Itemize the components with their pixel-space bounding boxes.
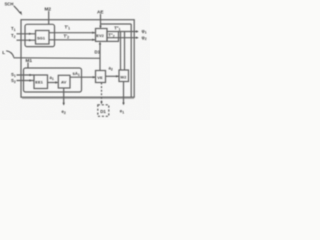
wire output 1 to phi1 [119,30,139,32]
inner module box M2 (top-left rounded) [25,24,55,46]
block SG1 [36,31,50,45]
wire right inner vertical [130,24,132,97]
label e1 [120,109,124,115]
block VE [96,71,106,83]
wire AV to VE with arrow [70,76,96,78]
label T1 [11,26,16,32]
svg-text:M1: M1 [26,58,33,63]
svg-text:SG1: SG1 [37,36,46,41]
inner module box M1 (bottom rounded) [24,68,82,92]
svg-text:EE1: EE1 [35,80,43,85]
svg-text:AE: AE [97,10,104,15]
label e2 [62,109,66,115]
svg-text:T′′1: T′′1 [114,26,120,32]
leader arrow from SCH to outer box [14,6,22,15]
block D1 dashed [98,105,109,117]
wire T1 into SG1 with arrow [17,33,36,35]
wire M2 down [48,11,50,24]
outer box bottom shadow line [22,97,134,99]
wire T'1 from SG1 to EV2 with arrow [49,32,96,34]
wire VE to EV2 vertical with up arrow [99,42,101,71]
wire output 2 to phi2 [107,37,139,39]
label T'1 [65,25,71,31]
label phi1 [142,29,147,35]
wire AE branch right [101,23,132,25]
wire S1 into EE1 with arrow [17,74,35,76]
label phi2 [142,35,147,41]
svg-text:VE: VE [97,75,103,80]
wire EE1 to AV with arrow [48,81,59,83]
label M2 [45,7,52,12]
wire M1 down [27,63,29,69]
block EE1 [34,75,48,89]
svg-text:SCH: SCH [5,2,14,7]
wire S2 into EE1 with arrow [17,79,35,81]
label M1 [26,58,33,63]
block EV2 [96,29,108,42]
svg-text:AV: AV [61,80,67,85]
block W2 [119,70,129,82]
svg-text:a1: a1 [50,75,54,81]
svg-text:a2: a2 [109,66,113,72]
label T''1 [114,26,120,32]
label D1 (signal) [95,50,101,55]
svg-text:T′2: T′2 [64,34,70,40]
svg-text:T1: T1 [11,26,16,32]
svg-text:T′1: T′1 [65,25,71,31]
wire L horizontal [14,57,100,60]
svg-text:e1: e1 [120,109,124,115]
wire T2 into SG1 with arrow [17,39,36,41]
label T2 [11,33,16,39]
wire tap T''1 down to W2 [120,32,122,71]
svg-text:D1: D1 [100,109,106,114]
svg-text:S1: S1 [11,72,16,78]
wire tap T''2 down to W2 [124,32,126,71]
svg-text:W2: W2 [120,74,127,79]
wire T'2 from SG1 to EV2 with arrow [49,39,96,41]
cell T''2 [107,32,119,42]
label S2 [11,78,16,84]
block AV [58,75,70,88]
label T'2 [64,34,70,40]
wire W2 down output e1 with arrow [122,82,124,106]
leader from L to line [6,51,14,57]
svg-text:e2: e2 [62,109,66,115]
wire VE down dashed to D1 [100,83,102,105]
svg-text:sA1: sA1 [73,71,80,77]
wire AE down with arrow into EV2 [99,14,101,29]
svg-text:L: L [2,50,5,55]
svg-text:EV2: EV2 [96,33,104,38]
wire AV down output e2 with arrow [63,88,65,106]
wire VE to W2 with arrow [106,75,119,77]
svg-text:S2: S2 [11,78,16,84]
outer box L (system boundary) [21,20,134,98]
svg-text:T2: T2 [11,33,16,39]
label SCH [5,2,14,7]
label a2 [109,66,113,72]
paper noise texture [0,0,150,120]
label sA1 [73,71,80,77]
svg-text:M2: M2 [45,7,52,12]
label AE [97,10,104,15]
label S1 [11,72,16,78]
label L [2,50,5,55]
label a1 [50,75,54,81]
